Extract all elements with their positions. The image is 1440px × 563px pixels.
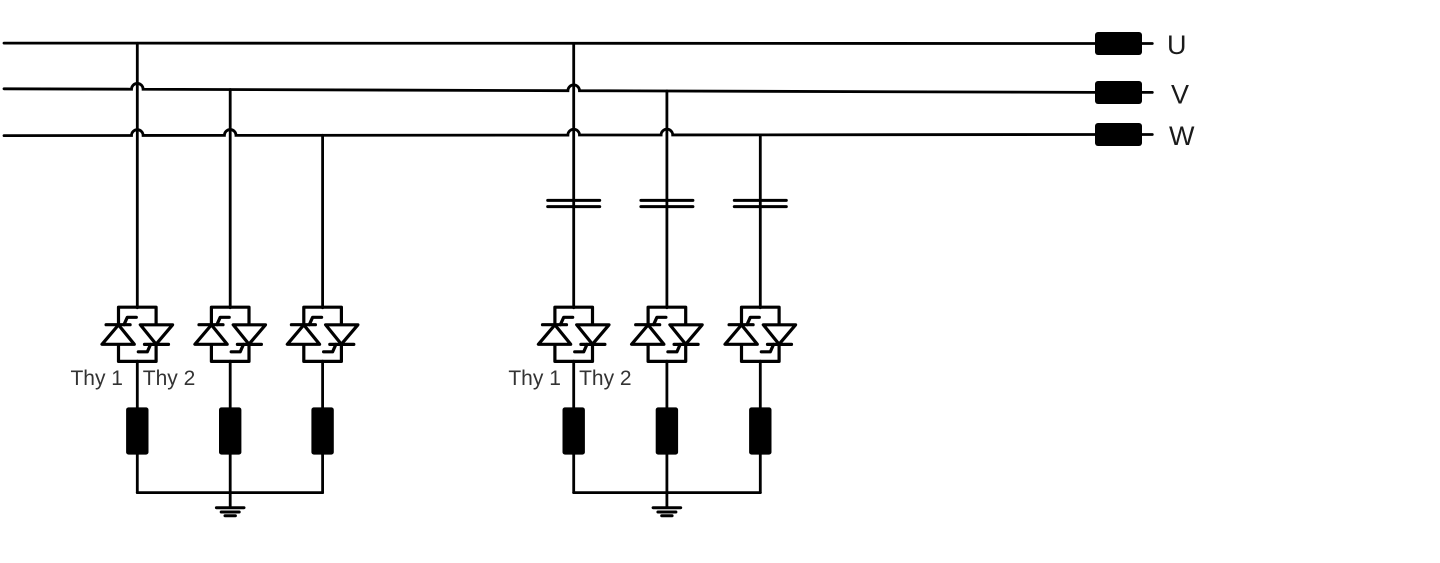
svg-text:U: U <box>1167 30 1187 60</box>
terminal block V <box>1095 81 1142 104</box>
thyristor pair R1 <box>538 307 609 361</box>
wire column L1 from U <box>136 43 139 307</box>
reactor L2 <box>219 407 241 454</box>
wire column R2 from V <box>666 91 669 308</box>
wire L2 thy to reactor <box>229 361 232 407</box>
reactor L3 <box>311 407 333 454</box>
wire bottom bus right group <box>574 491 761 494</box>
reactor R3 <box>749 407 771 454</box>
capacitor R1 <box>548 200 600 206</box>
wire column R3 from W <box>759 135 762 308</box>
wire L3 thy to reactor <box>321 361 324 407</box>
thyristor pair L1 <box>102 307 173 361</box>
wire bus W with hops <box>4 129 1095 135</box>
svg-text:Thy 2: Thy 2 <box>143 367 196 390</box>
svg-text:Thy 1: Thy 1 <box>70 367 123 390</box>
ground (right group) <box>653 508 681 516</box>
reactor L1 <box>126 407 148 454</box>
reactor R1 <box>563 407 585 454</box>
terminal block U <box>1095 32 1142 55</box>
svg-text:Thy 2: Thy 2 <box>579 367 632 390</box>
ground (left group) <box>216 508 244 516</box>
wire L2 reactor to ground stub <box>229 455 232 507</box>
wire bus U <box>4 42 1095 45</box>
thyristor pair L3 <box>287 307 358 361</box>
wire L1 reactor to bottom bus <box>136 455 139 493</box>
wire column R1 from U <box>572 43 575 307</box>
thyristor pair R2 <box>632 307 703 361</box>
wire bottom bus left group <box>137 491 322 494</box>
wire R1 reactor to bottom bus <box>572 455 575 493</box>
wire L1 thy to reactor <box>136 361 139 407</box>
capacitor R2 <box>641 200 693 206</box>
svg-text:Thy 1: Thy 1 <box>508 367 561 390</box>
terminal stub U <box>1142 42 1152 45</box>
wire R2 reactor to ground stub <box>666 455 669 507</box>
wire R1 thy to reactor <box>572 361 575 407</box>
wire L3 reactor to bottom bus <box>321 455 324 493</box>
thyristor pair L2 <box>195 307 266 361</box>
wire R3 reactor to bottom bus <box>759 455 762 493</box>
wire column L2 from V <box>229 90 232 308</box>
reactor R2 <box>656 407 678 454</box>
terminal block W <box>1095 123 1142 146</box>
wire R3 thy to reactor <box>759 361 762 407</box>
terminal stub W <box>1142 133 1152 136</box>
svg-text:V: V <box>1171 80 1189 110</box>
wire R2 thy to reactor <box>666 361 669 407</box>
terminal stub V <box>1142 91 1152 94</box>
thyristor pair R3 <box>725 307 796 361</box>
svg-text:W: W <box>1169 121 1195 151</box>
wire column L3 from W <box>321 135 324 307</box>
wire bus V with hops <box>4 83 1095 92</box>
capacitor R3 <box>734 200 786 206</box>
